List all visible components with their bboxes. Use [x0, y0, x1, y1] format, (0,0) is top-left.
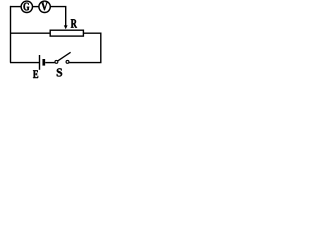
wire from V to slider corner — [51, 6, 66, 26]
label R — [71, 19, 77, 27]
wire from rheostat right end — [83, 33, 100, 63]
wire left rail — [10, 6, 12, 63]
galvanometer G — [21, 1, 32, 12]
battery E — [40, 55, 55, 70]
rheostat R body — [50, 30, 83, 36]
wire middle segment — [10, 32, 50, 34]
wire bottom left segment — [10, 62, 39, 64]
wire between G and V — [33, 6, 39, 8]
slider arrow — [64, 25, 68, 29]
wire bottom right segment — [69, 62, 102, 64]
label S — [57, 68, 62, 76]
wire top left segment — [10, 6, 21, 8]
switch S — [55, 52, 71, 63]
voltmeter V — [39, 1, 50, 12]
label E — [33, 70, 38, 78]
